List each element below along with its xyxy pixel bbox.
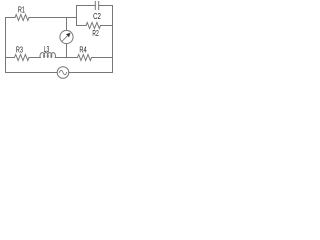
wire middle right segment [92, 57, 113, 59]
wire parallel-section left vertical [76, 6, 78, 26]
wire capacitor branch left [77, 5, 96, 7]
wire stub from current source bottom [66, 44, 68, 58]
wire resistor branch right [101, 25, 113, 27]
wire bottom right segment [69, 72, 113, 74]
wire right vertical [112, 6, 114, 73]
svg-text:R4: R4 [79, 46, 87, 55]
wire resistor branch left [77, 25, 87, 27]
resistor R4 [78, 55, 92, 61]
capacitor C2 [95, 2, 98, 10]
svg-text:R1: R1 [18, 6, 25, 15]
wire bottom left segment [6, 72, 58, 74]
resistor R2 [86, 23, 101, 29]
wire left vertical [5, 18, 7, 73]
wire capacitor branch right [99, 5, 113, 7]
svg-text:R2: R2 [92, 29, 99, 38]
current source U1 [60, 30, 73, 43]
ac source V1 [57, 67, 69, 79]
svg-text:R3: R3 [16, 46, 23, 55]
resistor R1 [15, 15, 29, 21]
wire middle segment R3 to L3 [29, 57, 40, 59]
wire top middle segment [29, 17, 77, 19]
wire middle segment L3 to R4 [56, 57, 78, 59]
resistor R3 [15, 55, 30, 61]
svg-text:C2: C2 [93, 12, 101, 21]
inductor L3 [40, 53, 56, 58]
wire stub to current source top [66, 18, 68, 31]
wire top left segment [6, 17, 16, 19]
wire middle left segment [6, 57, 15, 59]
svg-text:L3: L3 [44, 45, 50, 54]
